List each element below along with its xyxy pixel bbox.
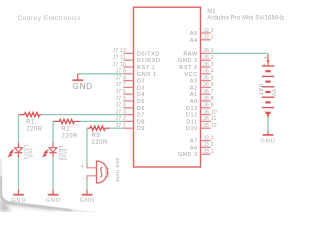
- svg-text:J6 4: J6 4: [203, 69, 214, 75]
- svg-text:A2: A2: [190, 85, 198, 91]
- svg-text:-: -: [82, 175, 84, 181]
- svg-text:RAW: RAW: [183, 51, 198, 57]
- ground LED1: [11, 190, 27, 205]
- svg-text:GND: GND: [72, 81, 92, 91]
- svg-text:GND: GND: [260, 139, 276, 145]
- svg-text:J6 5: J6 5: [203, 75, 214, 81]
- svg-text:M1: M1: [207, 9, 216, 15]
- svg-text:D1/RXD: D1/RXD: [137, 58, 161, 64]
- ground LED2: [46, 190, 62, 205]
- left pin names: [137, 51, 161, 132]
- svg-text:GND: GND: [80, 198, 96, 204]
- ground GND1: [72, 74, 92, 91]
- wire D8 net: [80, 120, 124, 122]
- right pin numbers: [203, 28, 217, 155]
- svg-text:D11: D11: [186, 119, 197, 125]
- svg-text:J2 2: J2 2: [203, 28, 214, 34]
- right pin stubs J2 J6 J3: [201, 33, 211, 154]
- svg-text:GND: GND: [11, 198, 27, 204]
- svg-text:J6 3: J6 3: [203, 62, 214, 68]
- svg-text:J6 12: J6 12: [203, 123, 217, 129]
- svg-text:D2: D2: [137, 79, 145, 85]
- svg-text:R2: R2: [62, 127, 71, 133]
- svg-text:A1: A1: [190, 92, 198, 98]
- ground BZ1: [80, 190, 96, 205]
- svg-text:D5: D5: [137, 99, 145, 105]
- svg-text:A0: A0: [190, 99, 198, 105]
- battery BAT 9V: [257, 54, 276, 118]
- svg-text:VCC: VCC: [184, 72, 197, 78]
- svg-text:220R: 220R: [62, 134, 79, 140]
- svg-text:D6: D6: [137, 106, 145, 112]
- svg-text:D12: D12: [186, 113, 198, 119]
- svg-text:D7: D7: [137, 113, 145, 119]
- wire RAW net: [211, 53, 268, 55]
- svg-text:J7 8: J7 8: [116, 75, 127, 81]
- svg-text:D0/TXD: D0/TXD: [137, 51, 160, 57]
- svg-text:D10: D10: [186, 126, 198, 132]
- svg-text:GND 2: GND 2: [178, 58, 198, 64]
- svg-text:-: -: [264, 109, 266, 114]
- svg-text:J3 3: J3 3: [203, 135, 214, 141]
- LED LED2 blue: [43, 142, 67, 161]
- svg-text:RST 2: RST 2: [179, 65, 198, 71]
- svg-text:A3: A3: [190, 79, 198, 85]
- svg-text:+: +: [81, 164, 84, 170]
- svg-text:J7 12: J7 12: [112, 48, 126, 54]
- svg-text:A4: A4: [190, 38, 198, 44]
- svg-text:220R: 220R: [92, 140, 109, 146]
- resistor R2: [53, 119, 80, 139]
- svg-text:J2 1: J2 1: [203, 35, 214, 41]
- svg-text:J6 11: J6 11: [203, 116, 216, 122]
- LED LED1 red: [8, 142, 32, 160]
- left pin stubs J7: [123, 53, 133, 128]
- wire buzzer branch: [86, 128, 88, 163]
- LED2 emission arrows: [43, 149, 49, 156]
- LED1 emission arrows: [8, 149, 14, 156]
- svg-text:J7 10: J7 10: [112, 62, 126, 68]
- svg-text:J6 6: J6 6: [203, 82, 214, 88]
- wire LED1 to ground: [18, 158, 20, 190]
- ground battery: [260, 131, 276, 145]
- svg-text:red: red: [27, 149, 33, 158]
- wire battery to ground: [267, 118, 269, 131]
- svg-text:GND 1: GND 1: [137, 72, 157, 78]
- right pin names: [178, 31, 198, 158]
- wire LED2 branch: [52, 121, 54, 142]
- svg-text:A5: A5: [190, 31, 198, 37]
- svg-text:J3 1: J3 1: [203, 149, 214, 155]
- svg-text:D4: D4: [137, 92, 145, 98]
- svg-text:see note: see note: [114, 158, 120, 182]
- svg-text:BZ1: BZ1: [103, 168, 109, 179]
- svg-text:RST 1: RST 1: [137, 65, 156, 71]
- resistor R3: [87, 126, 110, 146]
- wire LED2 to ground: [52, 158, 54, 190]
- svg-text:Arduino Pro Mini 5V/16MHz: Arduino Pro Mini 5V/16MHz: [207, 15, 284, 21]
- svg-text:D9: D9: [137, 126, 145, 132]
- svg-text:J7 7: J7 7: [116, 82, 127, 88]
- svg-text:A7: A7: [190, 139, 198, 145]
- wire D9 net: [110, 127, 124, 129]
- wire D7 net: [41, 114, 123, 116]
- svg-text:J6 7: J6 7: [203, 89, 214, 95]
- svg-text:GND: GND: [46, 198, 62, 204]
- svg-text:220R: 220R: [26, 126, 43, 132]
- svg-text:D13: D13: [186, 106, 198, 112]
- IC U box M1 Arduino Pro Mini: [134, 7, 201, 167]
- svg-text:J6 2: J6 2: [203, 55, 214, 61]
- svg-text:J7 5: J7 5: [116, 96, 127, 102]
- svg-text:D8: D8: [137, 119, 145, 125]
- svg-text:J6 9: J6 9: [203, 103, 214, 109]
- wire GND1 net: [78, 73, 124, 75]
- left pin numbers J7: [112, 48, 126, 129]
- svg-text:blue: blue: [61, 149, 67, 161]
- svg-text:A6: A6: [190, 145, 198, 151]
- buzzer BZ1: [81, 158, 120, 183]
- wire LED1 branch: [18, 115, 20, 143]
- svg-text:J6 10: J6 10: [203, 109, 217, 115]
- resistor R1: [19, 113, 43, 133]
- svg-text:J7 6: J7 6: [116, 89, 127, 95]
- svg-text:J7 4: J7 4: [116, 103, 127, 109]
- svg-text:9V: 9V: [270, 89, 276, 97]
- svg-text:D3: D3: [137, 85, 145, 91]
- svg-text:Codrey Electronics: Codrey Electronics: [18, 15, 82, 22]
- svg-text:J3 2: J3 2: [203, 142, 214, 148]
- svg-text:R1: R1: [26, 119, 35, 125]
- svg-text:R3: R3: [92, 133, 101, 139]
- wire buzzer to ground: [86, 181, 88, 190]
- svg-text:GND 3: GND 3: [178, 152, 198, 158]
- svg-text:J6 8: J6 8: [203, 96, 214, 102]
- svg-text:J7 11: J7 11: [113, 55, 126, 61]
- svg-text:BAT: BAT: [257, 84, 263, 96]
